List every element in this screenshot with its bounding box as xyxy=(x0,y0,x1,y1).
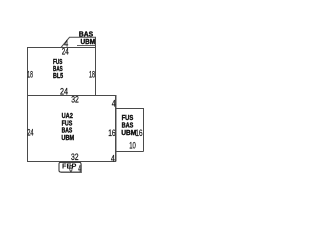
svg-text:4: 4 xyxy=(78,164,81,174)
wall: small right wing bottom edge xyxy=(116,151,144,153)
svg-text:BL5: BL5 xyxy=(53,71,63,80)
svg-text:10: 10 xyxy=(129,141,136,151)
svg-text:16: 16 xyxy=(135,128,142,138)
wall: small right wing right edge xyxy=(143,108,145,152)
wall: upper building right edge xyxy=(95,47,97,96)
svg-text:18: 18 xyxy=(27,69,33,79)
svg-text:32: 32 xyxy=(71,95,79,105)
FEP porch box with shadow xyxy=(59,162,81,172)
wall: bay slant + top (BAS/UBM bay) xyxy=(61,37,96,47)
wall: main building right edge xyxy=(115,95,117,162)
wall: upper building top edge xyxy=(27,47,95,49)
svg-text:UBM: UBM xyxy=(61,133,74,142)
svg-text:32: 32 xyxy=(71,152,79,162)
wall: small right wing top edge xyxy=(116,108,144,110)
wall: shared line (upper bottom / main top) xyxy=(27,95,116,97)
wall: bay lower ledge line xyxy=(77,45,95,47)
wall: upper building left edge + main left edge xyxy=(27,47,29,162)
svg-text:UBM: UBM xyxy=(81,37,96,46)
svg-text:24: 24 xyxy=(27,128,33,138)
svg-text:4: 4 xyxy=(111,153,115,163)
svg-text:4: 4 xyxy=(112,98,116,108)
svg-text:24: 24 xyxy=(62,47,69,57)
svg-text:6: 6 xyxy=(69,164,72,174)
svg-text:UBM: UBM xyxy=(121,128,136,137)
svg-text:16: 16 xyxy=(108,128,115,138)
svg-text:24: 24 xyxy=(60,87,68,97)
wall: main building bottom edge xyxy=(27,161,116,163)
svg-text:18: 18 xyxy=(89,69,95,79)
